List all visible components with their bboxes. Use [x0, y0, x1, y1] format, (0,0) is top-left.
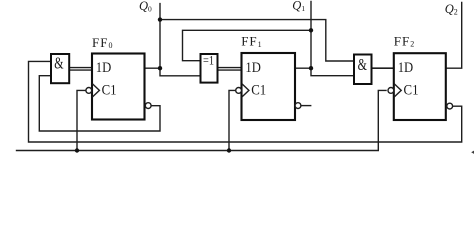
clock line [17, 90, 387, 150]
junction dot Q0 output [158, 66, 162, 70]
bubble FF0 Qbar [145, 103, 151, 109]
dynamic input triangle FF1 [242, 84, 249, 97]
dynamic input triangle FF2 [394, 84, 401, 97]
AND gate 2 box [354, 55, 372, 85]
XOR gate box [201, 54, 218, 83]
wire Q2 output [446, 3, 462, 69]
svg-text:C1: C1 [404, 83, 419, 99]
svg-text:C1: C1 [251, 83, 266, 99]
bubble FF2 C1 [388, 88, 394, 94]
junction dot FF1 clock [227, 148, 231, 152]
wire feedback Q2bar to AND1 top input [29, 61, 462, 142]
svg-text:1D: 1D [96, 60, 112, 76]
wire FF0 clock [77, 90, 86, 150]
caption fragment bottom right [471, 151, 474, 155]
wire Q1 output [295, 2, 311, 69]
flip-flop FF0 box [92, 54, 145, 120]
node Q0 rail [160, 20, 354, 61]
junction dot FF0 clock [75, 148, 79, 152]
wire Q1 to AND2 input [311, 68, 354, 76]
svg-text:&: & [54, 54, 63, 73]
flip-flop FF1 box [242, 53, 296, 120]
bubble FF1 Qbar [295, 103, 301, 109]
dynamic input triangle FF0 [92, 84, 99, 97]
wire Q0 output [145, 4, 161, 69]
junction dot Q1 output [309, 66, 313, 70]
flip-flop FF2 box [394, 53, 446, 120]
wire Q1bar stub [301, 105, 311, 107]
svg-text:=1: =1 [203, 54, 214, 68]
svg-text:C1: C1 [102, 83, 117, 99]
bubble FF2 Qbar [447, 103, 453, 109]
svg-text:&: & [358, 55, 367, 74]
bubble FF1 C1 [236, 88, 242, 94]
wire XOR to FF1 D [218, 68, 242, 71]
wire Q0 to XOR input [160, 68, 201, 76]
svg-text:1D: 1D [398, 60, 414, 76]
junction dot Q0 rail [158, 17, 162, 21]
wire feedback Q0bar to AND1 bottom input [39, 76, 160, 131]
junction dot Q1 rail to XOR [309, 28, 313, 32]
wire FF1 clock [229, 90, 236, 150]
bubble FF0 C1 [86, 88, 92, 94]
wire AND1 to FF0 D [69, 68, 92, 71]
svg-text:1D: 1D [245, 60, 261, 76]
wire AND2 to FF2 D [372, 67, 394, 69]
wire Q1 feedback to XOR top input [183, 30, 312, 60]
AND gate 1 box [51, 54, 69, 83]
